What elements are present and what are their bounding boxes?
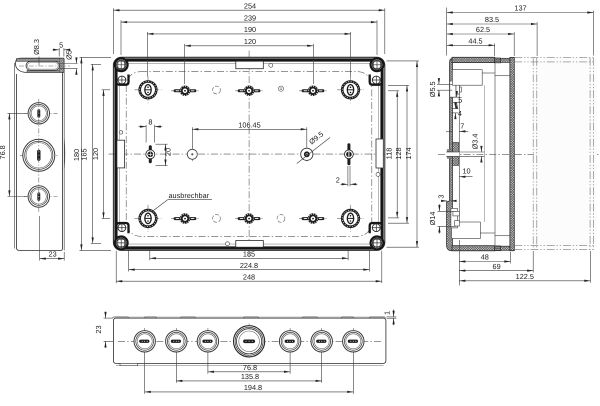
box rim dark band bbox=[116, 60, 382, 248]
lid face plate hatched bbox=[510, 57, 514, 250]
dim 76.8 bbox=[0, 113, 27, 196]
interior floor line bbox=[458, 93, 460, 222]
boss top-left bbox=[135, 76, 162, 103]
small hole left bbox=[119, 131, 122, 134]
mid bump on back edge bbox=[63, 138, 66, 169]
phantom lid medium bbox=[533, 58, 537, 250]
seal dash-dot inner rect bbox=[126, 72, 372, 237]
back wall hatched bbox=[447, 58, 453, 250]
phantom lid horizontals bbox=[514, 58, 593, 250]
tab bumps bbox=[112, 317, 129, 318]
latch marking bottom bbox=[236, 241, 263, 248]
svg-text:8: 8 bbox=[148, 118, 152, 127]
svg-text:3: 3 bbox=[436, 195, 445, 199]
dim 8 (slot width) bbox=[139, 118, 163, 143]
dim 69 bbox=[459, 251, 533, 273]
dim d3.4 bbox=[460, 134, 485, 163]
corner detail bottom-right bbox=[370, 223, 384, 249]
dim 106.45 bbox=[192, 121, 306, 149]
tab bottom strip bbox=[27, 70, 64, 72]
dim 83.5 bbox=[447, 15, 537, 56]
svg-text:23: 23 bbox=[49, 250, 57, 259]
latch marking left bbox=[117, 140, 125, 168]
svg-text:76.8: 76.8 bbox=[243, 363, 257, 372]
dim 135.8 bbox=[176, 353, 321, 383]
bottom wall hatched bbox=[452, 246, 495, 251]
tab centerline bbox=[19, 65, 70, 67]
dim 44.5 bbox=[447, 37, 495, 57]
svg-text:239: 239 bbox=[244, 13, 256, 22]
svg-text:Ø5.5: Ø5.5 bbox=[428, 81, 437, 97]
tab right end block bbox=[59, 58, 64, 72]
body outer back line bbox=[63, 59, 65, 251]
dim 1 (lid lip) bbox=[383, 310, 397, 326]
boss top-right bbox=[337, 76, 364, 103]
tiny brand stamp bbox=[278, 86, 283, 91]
svg-text:83.5: 83.5 bbox=[485, 15, 499, 24]
top wall hatched bbox=[452, 57, 495, 62]
svg-text:1: 1 bbox=[383, 311, 392, 315]
svg-text:190: 190 bbox=[244, 25, 256, 34]
dim 224.8 bbox=[128, 251, 130, 272]
svg-text:174: 174 bbox=[404, 147, 413, 159]
svg-text:ausbrechbar: ausbrechbar bbox=[169, 191, 210, 200]
svg-text:23: 23 bbox=[94, 325, 103, 333]
svg-text:Ø8.3: Ø8.3 bbox=[32, 39, 41, 55]
tab slot (d8.3) bbox=[26, 61, 60, 70]
knockout C3 bbox=[24, 186, 58, 207]
dim 3 (wall) bbox=[436, 195, 456, 201]
svg-text:Ø3.4: Ø3.4 bbox=[471, 134, 480, 150]
wall dense section at d3.4 hole bbox=[447, 149, 452, 158]
box outer outline bbox=[113, 57, 384, 250]
svg-text:135.8: 135.8 bbox=[241, 372, 259, 381]
svg-text:165: 165 bbox=[80, 148, 89, 160]
dim 185 bbox=[149, 251, 151, 260]
phantom lid high bbox=[590, 58, 593, 250]
dim 20 (slot length) bbox=[156, 144, 173, 166]
svg-text:Ø14: Ø14 bbox=[428, 212, 437, 226]
dim 120 left bbox=[102, 89, 110, 91]
boss d3.4 hatched bbox=[452, 143, 459, 166]
latch marking right bbox=[376, 139, 383, 168]
svg-text:224.8: 224.8 bbox=[240, 261, 258, 270]
dim 137 bbox=[447, 4, 594, 56]
bone knockouts bottom row bbox=[171, 213, 199, 224]
svg-text:248: 248 bbox=[243, 272, 255, 281]
dim 4 bbox=[453, 103, 462, 118]
small hole right bbox=[376, 172, 380, 176]
svg-text:4: 4 bbox=[458, 109, 462, 118]
dim 23 (left view) bbox=[40, 216, 64, 261]
dim 248 bbox=[115, 251, 117, 283]
svg-text:254: 254 bbox=[244, 1, 256, 10]
dim 194.8 bbox=[145, 353, 354, 394]
svg-text:7: 7 bbox=[460, 122, 464, 131]
big center knockout bbox=[234, 324, 265, 360]
svg-text:69: 69 bbox=[493, 262, 501, 271]
knockout C1 bbox=[24, 103, 58, 124]
dim 190 bbox=[146, 32, 148, 77]
svg-text:62.5: 62.5 bbox=[476, 25, 490, 34]
phantom lid light fill bbox=[534, 59, 597, 249]
mounting tab bbox=[16, 58, 64, 72]
body outline bbox=[113, 318, 386, 363]
wire horizontal centerline bbox=[109, 153, 392, 155]
dim 120 top bbox=[184, 44, 186, 84]
dim 239 bbox=[120, 20, 122, 55]
lid return strip bottom bbox=[500, 246, 510, 250]
dim 62.5 bbox=[447, 25, 515, 56]
bone knockouts top row bbox=[171, 86, 199, 97]
knockouts row bbox=[134, 328, 155, 355]
wire vertical centerline bbox=[248, 51, 250, 258]
box front rim line bbox=[494, 63, 496, 246]
vertical slot knockout left bbox=[146, 145, 155, 163]
horizontal centerline bbox=[118, 340, 381, 342]
inner wall depth line bbox=[483, 85, 485, 222]
svg-text:122.5: 122.5 bbox=[516, 272, 534, 281]
corner detail top-left bbox=[115, 58, 129, 84]
dim 118 bbox=[388, 90, 399, 92]
dim 180 bbox=[80, 56, 112, 58]
dim d14 bbox=[428, 204, 457, 234]
svg-text:128: 128 bbox=[394, 147, 403, 159]
vertical slot knockout right bbox=[345, 143, 354, 165]
label ausbrechbar with leader bbox=[152, 191, 212, 212]
tab line with bumps bbox=[115, 316, 386, 318]
svg-text:120: 120 bbox=[91, 148, 100, 160]
svg-text:2: 2 bbox=[336, 176, 340, 185]
dim 122.5 bbox=[459, 251, 590, 283]
dim 2 (slit width) bbox=[336, 166, 358, 186]
terminal block top bbox=[452, 70, 482, 86]
svg-text:5: 5 bbox=[458, 96, 462, 105]
small hole bottom bbox=[226, 242, 230, 246]
terminal block bottom bbox=[452, 222, 481, 239]
dim 254 bbox=[112, 8, 114, 54]
dim 5 (screw) bbox=[450, 92, 462, 108]
svg-text:10: 10 bbox=[462, 167, 470, 176]
svg-text:137: 137 bbox=[514, 4, 526, 13]
body outline bbox=[16, 73, 62, 251]
boss bottom-left bbox=[135, 205, 162, 232]
svg-text:194.8: 194.8 bbox=[244, 383, 262, 392]
dim d5.5 (back screw hole) bbox=[428, 78, 452, 97]
svg-text:76.8: 76.8 bbox=[0, 145, 7, 159]
svg-text:106.45: 106.45 bbox=[238, 121, 260, 130]
dim 23 (bottom view) bbox=[94, 312, 113, 348]
plain knockout circles bbox=[213, 86, 221, 94]
dim 5 (tab) bbox=[58, 48, 60, 57]
dim 128 bbox=[388, 84, 409, 86]
boss d14 bbox=[451, 209, 460, 228]
svg-text:44.5: 44.5 bbox=[468, 37, 482, 46]
dim 165 bbox=[91, 63, 101, 65]
latch marking top bbox=[236, 61, 263, 68]
screw bracket top bbox=[450, 81, 456, 97]
corner detail bottom-left bbox=[115, 223, 129, 249]
vertical centerline through knockouts bbox=[38, 99, 40, 212]
seal square bottom bbox=[495, 246, 501, 251]
dim 10 bbox=[459, 167, 472, 177]
box inner edge line bbox=[120, 64, 379, 245]
seal square top bbox=[495, 58, 501, 63]
knockout circle mid-left bbox=[187, 147, 197, 163]
tab knurled band bbox=[17, 58, 64, 61]
svg-text:20: 20 bbox=[164, 148, 173, 156]
svg-text:5: 5 bbox=[59, 40, 63, 49]
dim 76.8 (bottom) bbox=[208, 353, 290, 374]
dim 174 bbox=[387, 60, 419, 62]
knockout hole mid-right (d9.5) bbox=[301, 147, 313, 163]
dim 48 bbox=[459, 240, 510, 286]
boss bottom-right bbox=[337, 205, 364, 232]
svg-text:118: 118 bbox=[385, 148, 394, 160]
body front second line bbox=[14, 63, 16, 249]
knockout C2 (large) bbox=[20, 139, 58, 171]
small hole top bbox=[269, 63, 273, 67]
corner detail top-right bbox=[370, 58, 384, 84]
dim 7 bbox=[446, 122, 468, 132]
horizontal centerline bbox=[438, 153, 599, 155]
lid return strip top bbox=[500, 58, 510, 62]
lower lid line bbox=[116, 365, 384, 367]
svg-text:120: 120 bbox=[244, 37, 256, 46]
svg-text:185: 185 bbox=[243, 250, 255, 259]
lower step rect bbox=[120, 363, 138, 365]
svg-text:Ø5: Ø5 bbox=[65, 50, 74, 60]
leader d9.5 bbox=[297, 130, 330, 164]
svg-text:48: 48 bbox=[481, 253, 489, 262]
